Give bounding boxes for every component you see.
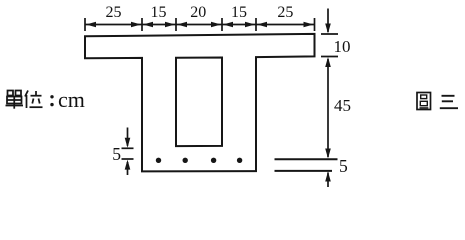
svg-text:45: 45: [334, 96, 351, 115]
svg-text:25: 25: [106, 4, 122, 21]
svg-text:15: 15: [231, 4, 247, 21]
svg-text:20: 20: [190, 4, 206, 21]
svg-text:cm: cm: [58, 87, 85, 112]
svg-text:5: 5: [339, 156, 348, 176]
svg-text:25: 25: [277, 4, 293, 21]
svg-text:10: 10: [334, 37, 351, 56]
svg-text:15: 15: [151, 4, 167, 21]
svg-text:5: 5: [112, 144, 121, 164]
